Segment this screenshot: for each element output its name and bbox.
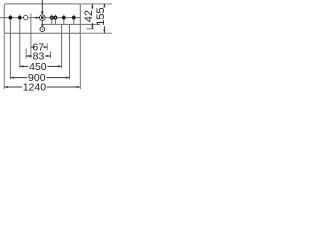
open hole ring x25.7 bbox=[24, 15, 28, 19]
extension stub x26.2 for 83 dim left bbox=[25, 48, 27, 58]
pair hole x55.4 bbox=[53, 16, 57, 20]
svg-text:42: 42 bbox=[83, 10, 95, 22]
fixture body outline rect bbox=[4, 4, 80, 33]
extension stub x49.4 for 67 dim right bbox=[46, 43, 48, 50]
extension stub for 42 bottom bbox=[87, 28, 95, 30]
ceiling hook hole (bullseye) bbox=[40, 15, 46, 21]
mounting hole x73.8 bbox=[72, 16, 76, 20]
dimension 42 (vertical) bbox=[91, 4, 93, 9]
mounting hole x63.8 bbox=[62, 16, 66, 20]
ceiling hook vertical leader line bbox=[41, 0, 43, 15]
arrow on centerline pointing at ceiling-hook center bbox=[35, 17, 39, 19]
extension line x69.5 for 900 right bbox=[69, 24, 71, 79]
mounting hole (filled) x10.4 bbox=[9, 16, 13, 20]
right side: bottom extension line bbox=[80, 32, 112, 34]
leader below hook to feed hole bbox=[41, 20, 43, 24]
lower reference line (42-dim extension) bbox=[42, 23, 100, 25]
svg-text:1240: 1240 bbox=[23, 82, 47, 94]
extension line from left hole x10.4 bbox=[9, 15, 11, 80]
extension line x4.2 below rect for 1240 left bbox=[3, 33, 5, 89]
dimension 1240 bbox=[4, 86, 22, 88]
mounting hole (filled) x19.8 bbox=[18, 16, 22, 20]
dimension 83 bbox=[26, 55, 32, 57]
ticks/stems for paired holes down to reference line bbox=[51, 15, 53, 25]
feed hole circle below hook bbox=[40, 27, 45, 32]
extension line x30.9 for 67 dim bbox=[30, 13, 32, 58]
extension line x80.3 below rect for 1240 right bbox=[79, 33, 81, 89]
dimension 900 bbox=[10, 77, 27, 79]
svg-text:450: 450 bbox=[29, 61, 47, 73]
svg-text:155: 155 bbox=[95, 7, 107, 25]
dimension 67 bbox=[30, 46, 33, 48]
dimension 450 bbox=[20, 65, 29, 67]
right side: top extension line bbox=[80, 3, 112, 5]
extension stub x50.6 for 83 dim right bbox=[50, 51, 52, 58]
extension line x61.6 for 450 right bbox=[61, 24, 63, 67]
horizontal centerline through mounting holes bbox=[0, 17, 80, 19]
dimension 155 (vertical) bbox=[103, 4, 105, 7]
pair hole x51.8 bbox=[50, 16, 54, 20]
extension line from hole x19.8 bbox=[19, 15, 21, 68]
